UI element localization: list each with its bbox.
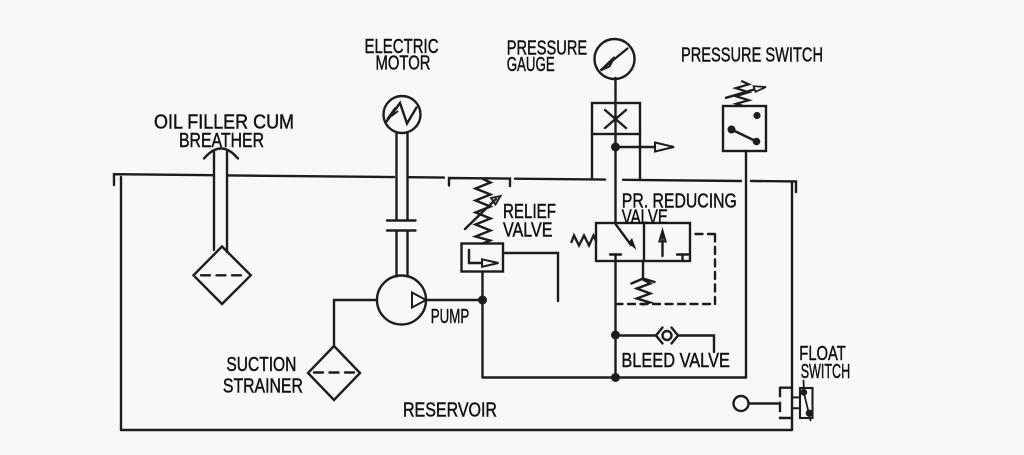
motor shaft xyxy=(397,133,408,277)
right wall xyxy=(791,181,793,430)
float ball xyxy=(734,396,749,411)
oil filler cum breather pipe xyxy=(204,149,238,253)
pressure gauge G1 xyxy=(595,39,635,79)
node bleed valve tap xyxy=(611,331,620,340)
bleed valve line xyxy=(616,334,657,336)
svg-text:GAUGE: GAUGE xyxy=(507,54,555,76)
node manifold junction xyxy=(611,373,620,382)
take-off arrow to system xyxy=(616,143,675,152)
gauge stem xyxy=(614,78,616,134)
pr reducing valve spring left xyxy=(572,236,597,246)
node gauge tee xyxy=(611,143,620,152)
pressure switch adjust arrow xyxy=(726,86,766,98)
pressure line from gauge tee down xyxy=(614,134,616,223)
top rail left segment with end tick xyxy=(114,174,213,185)
svg-text:BREATHER: BREATHER xyxy=(179,130,264,152)
svg-text:STRAINER: STRAINER xyxy=(223,375,303,397)
float rod xyxy=(749,402,781,404)
svg-text:SUCTION: SUCTION xyxy=(226,354,296,376)
bleed valve B1 xyxy=(656,328,678,344)
shaft coupling xyxy=(387,221,416,231)
float switch FS1 xyxy=(793,388,813,421)
relief valve spring xyxy=(476,179,491,244)
svg-text:PRESSURE SWITCH: PRESSURE SWITCH xyxy=(681,45,823,67)
pressure switch sensing line xyxy=(745,151,747,378)
float switch leader line xyxy=(803,381,805,388)
suction strainer diamond xyxy=(308,346,360,400)
gauge isolator valve xyxy=(592,103,640,179)
relief vent bracket xyxy=(449,178,510,186)
svg-text:BLEED VALVE: BLEED VALVE xyxy=(621,350,730,372)
svg-text:MOTOR: MOTOR xyxy=(376,53,431,75)
reservoir xyxy=(114,174,796,430)
relief valve outlet down xyxy=(481,272,483,378)
reducing valve pilot spring xyxy=(632,261,655,305)
relief valve V1 xyxy=(462,244,504,272)
electric motor M1 xyxy=(384,96,421,133)
pump P1 xyxy=(377,276,426,325)
float switch mounting bracket xyxy=(780,388,791,418)
reducing valve outlet down xyxy=(614,261,616,378)
suction line from strainer to pump xyxy=(334,300,377,346)
pump outlet line xyxy=(426,299,482,301)
oil filler breather filter diamond xyxy=(194,247,251,305)
bottom rail xyxy=(121,429,792,431)
node at pump outlet / relief valve xyxy=(478,296,487,305)
pressure switch spring xyxy=(736,81,749,106)
svg-text:SWITCH: SWITCH xyxy=(801,361,851,383)
bottom manifold line xyxy=(483,376,747,378)
relief valve adjust arrow xyxy=(465,196,501,229)
pressure switch S1 xyxy=(723,106,766,151)
bleed valve outlet xyxy=(678,336,714,353)
pilot drain dashed line xyxy=(616,234,716,304)
relief valve drain to tank xyxy=(503,253,558,301)
pr reducing valve V2 xyxy=(596,223,690,261)
left wall xyxy=(120,177,122,430)
svg-text:PUMP: PUMP xyxy=(431,306,470,328)
svg-text:VALVE: VALVE xyxy=(503,219,553,241)
svg-text:RESERVOIR: RESERVOIR xyxy=(403,400,497,422)
svg-text:VALVE: VALVE xyxy=(622,207,668,229)
